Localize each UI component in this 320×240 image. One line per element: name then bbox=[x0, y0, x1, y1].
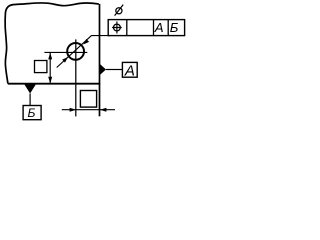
svg-text:Б: Б bbox=[170, 20, 179, 35]
svg-text:A: A bbox=[124, 62, 135, 79]
svg-text:Б: Б bbox=[28, 106, 36, 120]
svg-text:A: A bbox=[154, 20, 164, 35]
